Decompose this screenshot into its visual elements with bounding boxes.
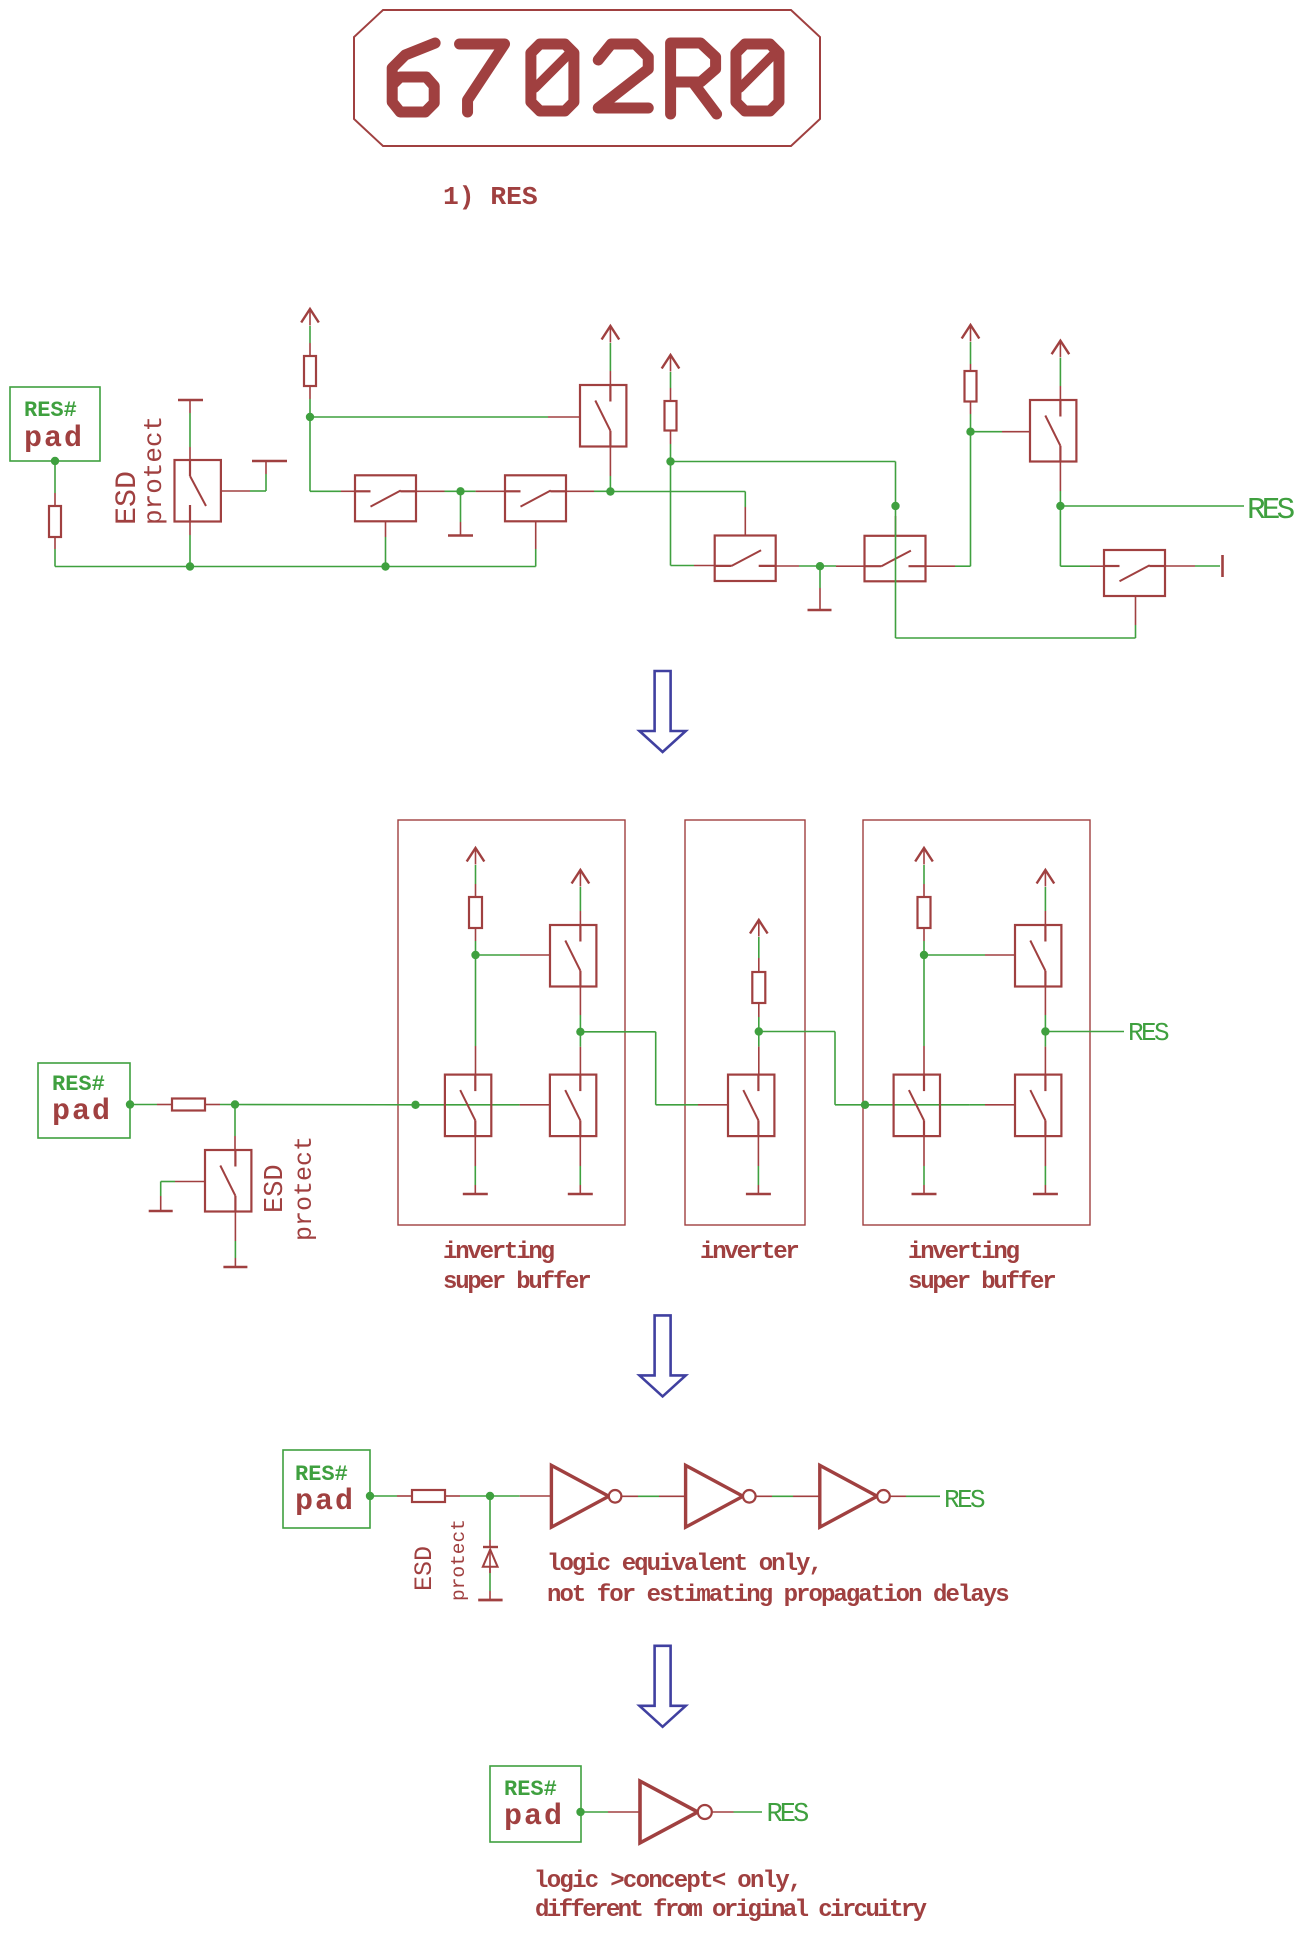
svg-text:RES: RES [1247, 493, 1295, 528]
svg-text:ESD: ESD [261, 1164, 291, 1213]
svg-text:pad: pad [24, 422, 84, 456]
svg-text:RES: RES [944, 1485, 985, 1515]
svg-text:super buffer: super buffer [443, 1269, 590, 1296]
svg-text:super buffer: super buffer [908, 1269, 1055, 1296]
svg-text:inverting: inverting [908, 1239, 1020, 1266]
svg-text:pad: pad [52, 1095, 112, 1129]
svg-text:1) RES: 1) RES [443, 182, 538, 212]
svg-text:different from original circui: different from original circuitry [535, 1897, 927, 1924]
svg-text:ESD: ESD [410, 1546, 439, 1591]
svg-text:protect: protect [448, 1519, 470, 1601]
svg-text:RES#: RES# [24, 398, 77, 423]
svg-text:protect: protect [290, 1136, 319, 1241]
svg-text:RES: RES [767, 1800, 809, 1830]
svg-text:logic equivalent only,: logic equivalent only, [547, 1551, 821, 1578]
svg-text:inverter: inverter [700, 1239, 798, 1266]
svg-text:protect: protect [139, 416, 169, 525]
svg-text:RES#: RES# [295, 1462, 348, 1487]
svg-text:RES: RES [1128, 1018, 1169, 1048]
svg-text:pad: pad [295, 1485, 355, 1519]
svg-text:RES#: RES# [504, 1777, 557, 1802]
svg-text:RES#: RES# [52, 1072, 105, 1097]
svg-text:pad: pad [504, 1800, 564, 1834]
svg-text:inverting: inverting [443, 1239, 555, 1266]
svg-text:logic >concept< only,: logic >concept< only, [534, 1868, 801, 1895]
svg-text:not for estimating propagation: not for estimating propagation delays [547, 1582, 1008, 1609]
